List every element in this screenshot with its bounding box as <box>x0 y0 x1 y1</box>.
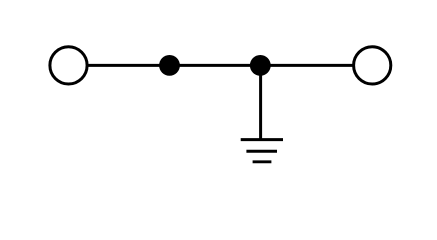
terminal circle left <box>50 47 87 84</box>
ground <box>241 140 283 162</box>
node junction dot 2 <box>250 55 271 76</box>
ground stem wire <box>259 65 262 139</box>
node junction dot 1 <box>159 55 180 76</box>
terminal circle right <box>354 47 391 84</box>
wire <box>69 64 373 67</box>
